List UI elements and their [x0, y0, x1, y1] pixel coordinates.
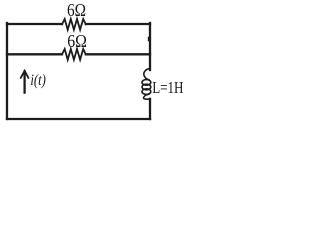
- wire middle-left segment: [7, 53, 62, 55]
- wire bottom: [7, 118, 150, 120]
- junction tick on right vertical: [148, 38, 150, 41]
- wire middle-right segment: [86, 53, 150, 55]
- inductor L1: [142, 69, 151, 100]
- svg-text:6Ω: 6Ω: [67, 31, 87, 51]
- current source arrow shaft: [23, 72, 25, 93]
- current source arrow head: [21, 71, 29, 78]
- wire left vertical: [6, 23, 8, 119]
- resistor R1: [62, 19, 86, 30]
- wire top-left segment: [7, 23, 62, 25]
- svg-text:i(t): i(t): [30, 72, 46, 89]
- wire right vertical lower: [149, 99, 151, 119]
- resistor R2: [62, 49, 86, 60]
- wire right vertical upper: [149, 23, 151, 70]
- svg-text:L=1H: L=1H: [152, 78, 183, 97]
- wire top-right segment: [86, 23, 150, 25]
- svg-text:6Ω: 6Ω: [67, 0, 86, 20]
